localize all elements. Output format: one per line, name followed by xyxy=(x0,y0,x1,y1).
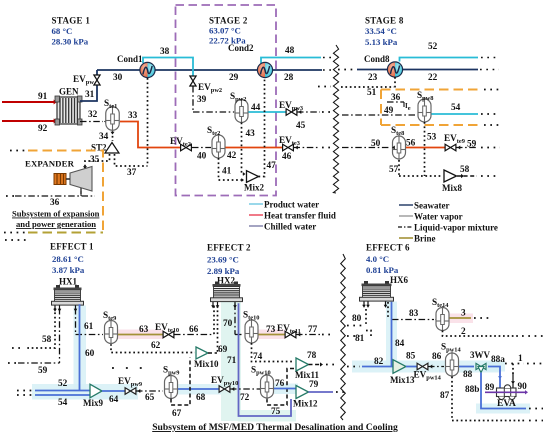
svg-text:32: 32 xyxy=(88,110,98,120)
wire 85 Mix13 to EVpw14 xyxy=(406,366,417,368)
svg-text:53: 53 xyxy=(427,133,437,143)
svg-text:EVA: EVA xyxy=(497,399,516,409)
mixer Mix10 xyxy=(196,347,208,359)
wire 77 to zigzag xyxy=(296,334,320,336)
svg-text:46: 46 xyxy=(282,152,292,162)
wire 76 product Spw10 to Mix12 xyxy=(274,388,296,390)
svg-text:STAGE 8: STAGE 8 xyxy=(365,16,404,26)
svg-text:EFFECT 6: EFFECT 6 xyxy=(366,243,410,253)
wire 87 vapor Spw14 out xyxy=(452,377,526,421)
condenser Cond1 xyxy=(140,62,148,77)
glow pink line 3 xyxy=(449,314,473,324)
separator Spw9 xyxy=(165,376,178,399)
separator Spw10 xyxy=(261,375,274,398)
glow band lines 52-64 xyxy=(32,384,138,400)
svg-text:60: 60 xyxy=(85,349,95,359)
wire 40 EVte2 to Ste2 xyxy=(192,147,211,149)
svg-text:Seawater: Seawater xyxy=(414,201,450,211)
glow band line 76 xyxy=(274,384,298,395)
wire 56 heat transfer Ste8 to EVte9 xyxy=(406,147,445,149)
wire 65 to Spw9 xyxy=(136,390,163,392)
svg-text:79: 79 xyxy=(309,380,319,390)
wire 80 vapor inlet xyxy=(365,309,367,326)
svg-text:90: 90 xyxy=(518,382,528,392)
svg-text:5.13 kPa: 5.13 kPa xyxy=(365,37,398,47)
svg-text:80: 80 xyxy=(352,314,362,324)
svg-text:44: 44 xyxy=(251,103,261,113)
svg-text:88: 88 xyxy=(463,370,473,380)
separator Ste1 xyxy=(106,107,120,130)
svg-text:54: 54 xyxy=(58,398,68,408)
wire 48 continuation dots xyxy=(323,57,333,59)
svg-text:GEN: GEN xyxy=(59,87,79,97)
separator Ste10 xyxy=(245,320,258,343)
wire seawater main line stage 8 (streams 23,22) xyxy=(357,69,478,71)
svg-text:HX1: HX1 xyxy=(59,277,78,287)
svg-text:Subsystem of expansion: Subsystem of expansion xyxy=(12,209,100,219)
heat exchanger HX6 xyxy=(364,281,368,284)
svg-text:52: 52 xyxy=(428,42,438,52)
svg-text:42: 42 xyxy=(227,151,237,161)
svg-text:Cond1: Cond1 xyxy=(117,54,143,64)
wire Cond8 vapor inlet xyxy=(394,77,396,89)
wire 58 vapor from HX1 xyxy=(25,308,55,348)
svg-text:EXPANDER: EXPANDER xyxy=(25,159,75,169)
svg-text:2.89 kPa: 2.89 kPa xyxy=(207,266,240,276)
wire 53 vapor Spw8 to Mix8 xyxy=(424,122,426,176)
svg-text:71: 71 xyxy=(227,356,237,366)
svg-text:68: 68 xyxy=(196,393,206,403)
svg-text:66: 66 xyxy=(189,325,199,335)
valve EVpw2 xyxy=(190,76,196,81)
svg-text:85: 85 xyxy=(406,352,416,362)
valve EVpw10 xyxy=(219,386,224,393)
svg-text:40: 40 xyxy=(197,152,207,162)
wire 59 dots right xyxy=(456,147,478,149)
svg-text:28.30 kPa: 28.30 kPa xyxy=(52,36,89,46)
valve EVpw xyxy=(94,75,100,80)
expansion subsystem boundary bottom xyxy=(28,232,103,234)
svg-text:28: 28 xyxy=(284,73,294,83)
svg-text:56: 56 xyxy=(406,139,416,149)
steam trap ST2 xyxy=(105,143,119,154)
wire 82 inlet xyxy=(362,366,393,368)
svg-text:23.69 °C: 23.69 °C xyxy=(207,255,239,265)
svg-text:43: 43 xyxy=(246,129,256,139)
svg-text:Mix13: Mix13 xyxy=(390,375,415,385)
wire continuation dots above Spw9 xyxy=(112,367,144,369)
wire 42 heat transfer Ste2 to EVte3 xyxy=(226,147,283,149)
svg-text:58: 58 xyxy=(42,335,52,345)
svg-text:65: 65 xyxy=(145,393,155,403)
break zigzag between stage 2 and stage 8 xyxy=(333,45,338,193)
mixer Mix12 xyxy=(296,386,309,399)
legend heat transfer fluid xyxy=(249,214,263,216)
evaporator coil EVA xyxy=(497,388,517,397)
glow band line 68 xyxy=(178,384,232,395)
wire 36 expander exhaust xyxy=(15,195,95,197)
wire hot stream 91 into GEN xyxy=(2,101,55,103)
expansion subsystem boundary top dots xyxy=(10,150,27,152)
svg-text:88b: 88b xyxy=(465,385,479,395)
svg-text:EFFECT 2: EFFECT 2 xyxy=(207,243,251,253)
wire 63 brine Ste9 to EVte10 xyxy=(118,334,163,336)
wire HX2 feed risers xyxy=(213,306,215,335)
wire 50 liquid-vapor into Ste8 xyxy=(342,147,391,149)
svg-text:36: 36 xyxy=(391,93,401,103)
svg-text:84: 84 xyxy=(395,339,405,349)
svg-text:75: 75 xyxy=(271,407,281,417)
svg-text:29: 29 xyxy=(229,73,239,83)
svg-text:Mix11: Mix11 xyxy=(295,370,319,380)
svg-text:88a: 88a xyxy=(491,355,505,365)
wire 54 product water Spw8 out xyxy=(432,113,479,115)
svg-text:92: 92 xyxy=(38,124,48,134)
wire seawater 31 from GEN to EVpw xyxy=(80,85,97,101)
wire 37 riser to Cond1 xyxy=(147,78,149,166)
wire 83 liquid-vapor HX6 to Ste14 xyxy=(387,302,389,320)
glow band HX2 loop bottom xyxy=(238,410,296,422)
wire 35 ST2 to expander xyxy=(85,154,110,167)
valve EVte9 xyxy=(445,144,450,151)
wire 64 Mix9 to EVpw9 xyxy=(102,390,125,392)
wire seawater continuation dots left of zigzag xyxy=(323,69,333,71)
wire 1 vapor to EVA xyxy=(505,363,524,365)
svg-text:4.0 °C: 4.0 °C xyxy=(366,254,389,264)
wire 51 vapor from zigzag xyxy=(341,86,394,88)
wire 36 internal dash-dot xyxy=(387,101,404,103)
wire 32 liquid-vapor GEN to Ste1 xyxy=(80,121,103,123)
wire 3 brine out xyxy=(450,317,472,319)
wire 88b 3WV bypass xyxy=(481,373,526,409)
mixer Mix2 xyxy=(247,171,259,183)
svg-text:STAGE 1: STAGE 1 xyxy=(52,16,91,26)
valve EVte3 xyxy=(283,144,288,151)
svg-text:58: 58 xyxy=(460,165,470,175)
wire 79 Mix12 out xyxy=(309,391,334,393)
svg-text:3.87 kPa: 3.87 kPa xyxy=(52,265,85,275)
wire 37 ST2 vapor to Cond1 xyxy=(115,154,148,166)
svg-text:63.07 °C: 63.07 °C xyxy=(209,26,241,36)
svg-text:30: 30 xyxy=(113,73,123,83)
valve EVpw3 xyxy=(286,109,291,116)
wire 71 chilled water loop xyxy=(239,303,292,416)
svg-text:Cond8: Cond8 xyxy=(364,54,390,64)
svg-text:77: 77 xyxy=(308,325,318,335)
svg-text:Water vapor: Water vapor xyxy=(414,212,463,222)
wire 43 vapor Spw2 to Mix2 xyxy=(242,123,245,175)
svg-text:39: 39 xyxy=(197,95,207,105)
svg-text:73: 73 xyxy=(266,325,276,335)
svg-text:62: 62 xyxy=(151,341,161,351)
separator Spw14 xyxy=(446,353,459,376)
svg-text:HX6: HX6 xyxy=(390,275,409,285)
separator Spw2 xyxy=(235,100,248,123)
wire 59 liquid-vapor from HX1 xyxy=(59,308,61,363)
svg-text:64: 64 xyxy=(109,395,119,405)
svg-text:33.54 °C: 33.54 °C xyxy=(365,26,397,36)
wire 86 to Spw14 xyxy=(428,366,444,368)
mixer Mix13 xyxy=(393,360,406,374)
svg-text:48: 48 xyxy=(285,46,295,56)
svg-text:49: 49 xyxy=(384,106,394,116)
wire product water 48-52 (Cond2 top across to stage8) xyxy=(261,58,321,64)
wire 61 liquid-vapor HX1 to Ste9 xyxy=(75,308,77,335)
legend chilled water xyxy=(249,225,263,227)
wire 34 vapor Ste1 to ST2 xyxy=(112,132,114,142)
wire 73 brine Ste10 to EVte11 xyxy=(259,334,286,336)
glow band line 82-88 xyxy=(352,361,500,373)
legend seawater xyxy=(399,204,413,206)
glow pink line 73 xyxy=(258,330,285,340)
condenser Cond2 xyxy=(257,62,265,77)
svg-text:and power generation: and power generation xyxy=(16,219,96,229)
wire 41 vapor Ste2 to Mix2 xyxy=(219,158,243,180)
wire 88a 3WV to EVA xyxy=(488,367,500,389)
svg-text:37: 37 xyxy=(127,168,137,178)
valve EVte2 xyxy=(181,144,186,151)
HX2 legs xyxy=(212,302,214,306)
separator Spw8 xyxy=(418,99,431,122)
svg-text:3: 3 xyxy=(461,309,466,319)
svg-text:Mix12: Mix12 xyxy=(293,399,318,409)
svg-text:Subsystem of MSF/MED Thermal D: Subsystem of MSF/MED Thermal Desalinatio… xyxy=(152,422,398,433)
wire 60 chilled water HX1 to Mix9 xyxy=(79,304,81,390)
wire 78 Mix11 out xyxy=(309,364,321,366)
separator Ste8 xyxy=(393,136,406,159)
wire 33 heat transfer fluid Ste1 to EVte2 xyxy=(120,122,180,148)
svg-text:59: 59 xyxy=(38,366,48,376)
svg-text:Liquid-vapor mixture: Liquid-vapor mixture xyxy=(414,223,498,233)
mixer Mix9 xyxy=(90,384,102,398)
svg-text:91: 91 xyxy=(38,92,48,102)
wire 68 product Spw9 to EVpw10 xyxy=(178,388,219,390)
wire 88 Spw14 to 3WV xyxy=(459,366,474,368)
svg-text:Product water: Product water xyxy=(264,200,319,210)
valve EVpw9 xyxy=(125,388,130,395)
wire 51 dots left of zigzag xyxy=(318,86,331,88)
separator Ste14 xyxy=(436,308,449,331)
stage 2 boundary (purple dashed box) xyxy=(176,5,277,196)
svg-text:52: 52 xyxy=(58,379,68,389)
svg-text:81: 81 xyxy=(355,334,365,344)
wire 39 horizontal into Spw2 xyxy=(193,111,234,113)
svg-text:Cond2: Cond2 xyxy=(228,43,254,53)
wire 57 vapor Ste8 down xyxy=(398,160,400,176)
wire 31 to 30 riser xyxy=(96,70,98,75)
svg-text:Brine: Brine xyxy=(414,234,436,244)
three-way valve 3WV xyxy=(476,363,481,369)
svg-text:Heat transfer fluid: Heat transfer fluid xyxy=(264,211,336,221)
svg-text:54: 54 xyxy=(451,103,461,113)
svg-text:28.61 °C: 28.61 °C xyxy=(52,254,84,264)
svg-text:31: 31 xyxy=(85,90,95,100)
legend brine xyxy=(399,237,413,239)
svg-text:76: 76 xyxy=(275,379,285,389)
svg-text:1: 1 xyxy=(518,354,523,364)
wire 84 chilled HX6 to Mix13 xyxy=(391,302,393,367)
wire 52 continuation dots xyxy=(481,57,499,59)
glow pink line 63 xyxy=(118,330,163,340)
separator Ste2 xyxy=(212,135,225,158)
wire 62 vapor Ste9 to Mix10 xyxy=(111,344,195,353)
heat exchanger HX1 xyxy=(56,285,60,288)
wire 46 to zigzag xyxy=(294,147,321,149)
HX6 legs xyxy=(363,302,365,306)
svg-text:59: 59 xyxy=(467,140,477,150)
svg-text:87: 87 xyxy=(440,391,450,401)
svg-text:68 °C: 68 °C xyxy=(52,26,73,36)
expansion subsystem boundary bottom dots xyxy=(4,232,26,234)
wire 72 into Spw10 xyxy=(230,388,260,390)
svg-text:67: 67 xyxy=(172,409,182,419)
svg-text:Mix8: Mix8 xyxy=(442,183,462,193)
svg-text:61: 61 xyxy=(84,322,94,332)
wire product water 38 (Cond1 top to EVpw2) xyxy=(143,58,193,77)
glow band line 60 xyxy=(74,306,87,392)
wire 44 product water Spw2 to EVpw3 xyxy=(249,111,287,113)
svg-text:33: 33 xyxy=(128,111,138,121)
svg-text:74: 74 xyxy=(253,352,263,362)
expander motor xyxy=(54,174,66,185)
svg-text:0.81 kPa: 0.81 kPa xyxy=(366,265,399,275)
svg-text:69: 69 xyxy=(218,345,228,355)
expander turbine xyxy=(70,167,92,192)
boundary lower dots xyxy=(5,239,28,241)
wire seawater main line stages 1-2 (streams 30,29,28) xyxy=(97,69,322,71)
svg-text:34: 34 xyxy=(99,132,109,142)
svg-text:57: 57 xyxy=(389,165,399,175)
svg-text:51: 51 xyxy=(367,88,377,98)
glow band 88b xyxy=(476,404,530,414)
wire 89-90 chilled water through EVA xyxy=(485,391,525,393)
svg-text:72: 72 xyxy=(240,393,250,403)
condenser Cond8 xyxy=(387,62,395,77)
wire 74 vapor Ste10 to Mix11 xyxy=(252,343,295,362)
svg-text:35: 35 xyxy=(90,155,100,165)
wire 2 vapor out xyxy=(443,331,520,337)
glow band 88a xyxy=(486,362,505,372)
svg-text:86: 86 xyxy=(432,352,442,362)
wire 81 inlet xyxy=(366,331,371,337)
svg-text:45: 45 xyxy=(296,121,306,131)
svg-text:2: 2 xyxy=(461,327,466,337)
wire 70 liquid-vapor HX2 to Ste10 xyxy=(234,304,236,335)
svg-text:89: 89 xyxy=(485,383,495,393)
svg-text:36: 36 xyxy=(50,198,60,208)
wire hot stream 92 into GEN xyxy=(2,120,55,122)
glow band line 84 xyxy=(386,302,397,367)
break zigzag bottom half xyxy=(341,254,346,420)
glow band HX2 loop vertical xyxy=(221,302,241,421)
svg-text:Mix10: Mix10 xyxy=(194,359,219,369)
mixer Mix8 xyxy=(444,170,457,182)
svg-text:63: 63 xyxy=(139,325,149,335)
wire 75 vapor Spw10 to Mix11 xyxy=(267,369,295,406)
wire product water 52 from Cond8 top xyxy=(400,58,479,62)
svg-text:EFFECT 1: EFFECT 1 xyxy=(50,242,94,252)
svg-text:STAGE 2: STAGE 2 xyxy=(209,16,248,26)
wire 69 Mix10 out xyxy=(208,352,217,354)
HX1 legs xyxy=(54,306,56,310)
valve EVte11 xyxy=(285,331,290,338)
separator Ste9 xyxy=(105,321,118,344)
wire 67 vapor Spw9 to Mix10 xyxy=(171,358,190,406)
wire 58 Mix8 out xyxy=(457,175,477,177)
svg-text:3WV: 3WV xyxy=(470,350,491,360)
wire seawater continuation dots right xyxy=(480,69,499,71)
heat exchanger HX2 xyxy=(215,282,219,285)
wire 54 dots xyxy=(481,113,499,115)
wire vapor manifold into Mix8 xyxy=(399,175,443,177)
svg-text:Chilled water: Chilled water xyxy=(264,222,316,232)
wire 66 to HX2 feed xyxy=(174,334,214,336)
svg-text:47: 47 xyxy=(267,161,277,171)
wire 47 Mix2 to Cond2 xyxy=(259,78,265,177)
svg-text:22: 22 xyxy=(428,73,438,83)
svg-text:Mix9: Mix9 xyxy=(83,398,103,408)
svg-text:38: 38 xyxy=(160,47,170,57)
generator GEN xyxy=(57,97,80,124)
valve EVte10 xyxy=(163,331,168,338)
wire 45 to zigzag xyxy=(297,111,320,113)
stage 8 recovery boundary (orange dashed) xyxy=(381,89,481,91)
valve EVpw14 xyxy=(417,363,422,370)
wire 39 EVpw2 to Spw2 xyxy=(192,86,194,112)
legend product water xyxy=(249,203,263,205)
wire 52 inlet xyxy=(35,390,90,392)
expansion subsystem boundary (orange dashed) xyxy=(28,151,103,233)
svg-text:23: 23 xyxy=(368,73,378,83)
svg-text:50: 50 xyxy=(371,139,381,149)
svg-text:41: 41 xyxy=(222,167,232,177)
wire 54 inlet xyxy=(35,394,90,396)
legend water vapor xyxy=(399,215,413,217)
svg-text:78: 78 xyxy=(307,351,317,361)
svg-text:82: 82 xyxy=(374,357,384,367)
wire 49 liquid-vapor into Spw8 xyxy=(342,114,417,116)
mixer Mix11 xyxy=(296,358,309,371)
svg-text:83: 83 xyxy=(409,309,419,319)
legend liquid-vapor mixture xyxy=(398,226,413,228)
svg-text:70: 70 xyxy=(223,319,233,329)
svg-text:Mix2: Mix2 xyxy=(244,183,264,193)
